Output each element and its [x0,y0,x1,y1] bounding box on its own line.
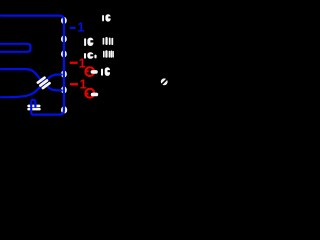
label T6 (white "ic" bottom) [101,67,111,76]
port symbol S1 (red ring with white tag) [85,67,97,76]
svg-text:1: 1 [78,21,85,35]
label T5 (white "imi)" row A right) [103,50,114,57]
via pad P6 [61,106,67,113]
marker M1 (white disc with diagonal slash, right) [161,78,168,85]
label T1 (white "ic" top) [102,14,111,21]
label T3 (white "imi" row B right) [103,37,114,45]
svg-text:1: 1 [80,78,87,92]
label T4 (white "ic." row A left) [84,52,97,59]
via pad P2 [61,35,67,42]
via pad P1 (top corner) [61,17,67,24]
wire W3: lower-left horizontal crossing to upper-right pad P4 [1,75,62,98]
crossover hatch H2 (double bar near arch) [27,105,40,111]
svg-text:1: 1 [79,57,86,71]
crossover hatch H1 (three ticks at X crossing) [38,78,50,88]
label -1 (red, port 1) [70,57,86,71]
wire W2: upper-left horizontal crossing to lower-right pad P5 [1,69,62,90]
via pad P4 [61,71,67,78]
wire W1: top horizontal + right vertical bus + bottom return + arch [1,16,64,115]
via pad P5 [61,86,67,93]
label -1 (blue, node gain) [70,21,85,35]
label T2 (white "ic" row B left) [84,38,94,46]
label -1 (red, port 2) [70,78,87,92]
inductor hairpin L1 (left middle) [0,44,30,52]
via pad P3 [61,50,67,57]
port symbol S2 (red ring with white tag) [85,89,98,98]
